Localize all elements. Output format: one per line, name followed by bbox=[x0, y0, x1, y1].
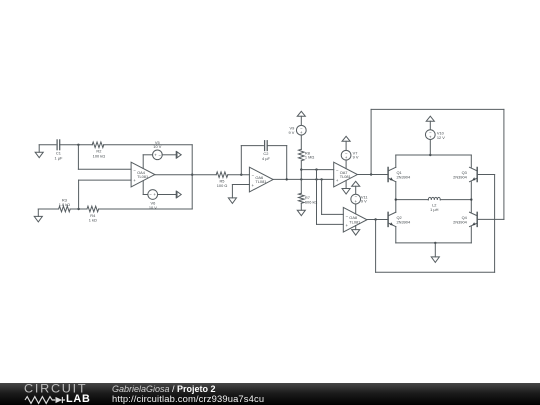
svg-text:100 kΩ: 100 kΩ bbox=[93, 153, 106, 158]
ground (bridge bottom) bbox=[431, 257, 439, 263]
node (OA6 inverting input) bbox=[240, 174, 242, 176]
node bbox=[300, 178, 302, 180]
node bbox=[286, 178, 288, 180]
svg-text:100 Ω: 100 Ω bbox=[217, 183, 228, 188]
wire (bridge top rail) bbox=[396, 154, 472, 156]
resistor R2 100 kOhm bbox=[92, 142, 105, 158]
wire (Q2 collector) bbox=[395, 200, 397, 213]
node (stage1 output) bbox=[191, 174, 193, 176]
wire (OA7 V+ stub) bbox=[345, 160, 347, 169]
svg-text:1 µH: 1 µH bbox=[430, 207, 438, 212]
wire bbox=[99, 208, 193, 210]
op-amp OA4 TL081 bbox=[131, 162, 155, 187]
wire bbox=[300, 161, 302, 194]
svg-text:1 kΩ: 1 kΩ bbox=[89, 218, 97, 223]
node bbox=[434, 242, 436, 244]
svg-text:10 V: 10 V bbox=[149, 205, 157, 210]
svg-text:TL081: TL081 bbox=[137, 174, 148, 179]
voltage source V9 9 V bbox=[288, 125, 306, 135]
voltage source V11 9 V bbox=[351, 194, 368, 204]
transistor Q3 2N3904 bbox=[453, 167, 477, 181]
svg-text:+: + bbox=[336, 178, 339, 183]
svg-text:TL081: TL081 bbox=[255, 179, 266, 184]
resistor R4 1 kOhm bbox=[87, 206, 99, 222]
wire (bottom cross loop) bbox=[376, 175, 495, 273]
wire bbox=[70, 208, 87, 210]
svg-text:+: + bbox=[252, 183, 255, 188]
node bbox=[320, 178, 322, 180]
svg-text:−: − bbox=[345, 213, 348, 218]
wire (to OA8 +) bbox=[317, 170, 344, 225]
wire (Q3 emitter) bbox=[470, 182, 472, 200]
wire (to OA8 -) bbox=[322, 179, 344, 214]
wire (stage1 feedback vertical) bbox=[191, 145, 193, 209]
ground (above V11) bbox=[352, 181, 360, 194]
svg-text:9 V: 9 V bbox=[353, 155, 359, 160]
wire bbox=[104, 144, 193, 146]
voltage source V5 10 V bbox=[153, 140, 163, 160]
wire (bridge mid rail right) bbox=[440, 199, 471, 201]
ground (V5) bbox=[176, 151, 181, 158]
ground (below OA8) bbox=[352, 230, 360, 236]
op-amp OA7 TL081 bbox=[334, 162, 358, 187]
wire (OA4 V- stub) bbox=[143, 181, 148, 195]
svg-text:2N3904: 2N3904 bbox=[397, 219, 411, 224]
resistor R8 1 MOhm bbox=[299, 149, 315, 161]
CircuitLab logo bbox=[24, 384, 94, 394]
wire (C2 feedback left) bbox=[241, 146, 263, 175]
wire (Q1 collector) bbox=[395, 155, 397, 167]
svg-text:9 V: 9 V bbox=[361, 199, 367, 204]
voltage source V7 9 V bbox=[341, 150, 359, 160]
ground (below R7) bbox=[297, 210, 305, 216]
node (C1/R2 junction) bbox=[77, 144, 79, 146]
wire bbox=[38, 208, 58, 210]
wire bbox=[228, 174, 250, 176]
svg-text:2N3904: 2N3904 bbox=[453, 174, 467, 179]
node (divider node) bbox=[300, 168, 302, 170]
resistor R7 606 kOhm bbox=[299, 193, 318, 204]
svg-text:−: − bbox=[133, 168, 136, 173]
capacitor C1 1 uF bbox=[54, 140, 62, 160]
wire (OA4 V+ stub) bbox=[143, 155, 153, 169]
ground (below OA7) bbox=[342, 189, 350, 195]
svg-text:4 µF: 4 µF bbox=[262, 156, 270, 161]
wire (OA7 out to Q1 base) bbox=[357, 174, 388, 176]
op-amp OA6 TL081 bbox=[249, 167, 273, 192]
svg-text:−: − bbox=[252, 173, 255, 178]
svg-text:10 V: 10 V bbox=[153, 144, 161, 149]
node (R3/R4 junction) bbox=[77, 208, 79, 210]
transistor Q1 2N3904 bbox=[388, 167, 411, 181]
wire (OA8 out to Q2 base) bbox=[367, 219, 388, 221]
svg-text:9 V: 9 V bbox=[288, 130, 294, 135]
wire bbox=[39, 144, 56, 146]
svg-text:+: + bbox=[133, 178, 136, 183]
svg-text:1.8 kΩ: 1.8 kΩ bbox=[59, 202, 70, 207]
ground (above V9) bbox=[297, 111, 305, 125]
wire (OA8 V- stub) bbox=[355, 226, 357, 230]
node bbox=[315, 168, 317, 170]
wire bbox=[300, 135, 302, 149]
node bbox=[395, 198, 397, 200]
wire (OA8 V+ stub) bbox=[355, 204, 357, 214]
ground (V6) bbox=[176, 191, 181, 198]
wire (bridge mid rail left) bbox=[396, 199, 429, 201]
ground (stage 1 bottom-left) bbox=[34, 209, 42, 222]
wire (node A to OA7 -) bbox=[301, 169, 333, 171]
node bbox=[470, 198, 472, 200]
svg-text:1 µF: 1 µF bbox=[54, 155, 62, 160]
svg-text:−: − bbox=[336, 168, 339, 173]
wire (OA6 output row) bbox=[273, 178, 334, 180]
svg-text:2N3904: 2N3904 bbox=[453, 219, 467, 224]
wire (OA6 + to ground) bbox=[232, 185, 249, 198]
wire (top cross loop) bbox=[371, 109, 504, 219]
wire bbox=[155, 174, 216, 176]
svg-text:TL081: TL081 bbox=[349, 219, 360, 224]
wire bbox=[434, 243, 436, 257]
node bbox=[315, 178, 317, 180]
node bbox=[374, 218, 376, 220]
wire (bridge bottom rail) bbox=[396, 242, 472, 244]
wire (Q4 emitter) bbox=[470, 227, 472, 243]
svg-text:12 V: 12 V bbox=[437, 135, 445, 140]
svg-text:TL081: TL081 bbox=[340, 174, 351, 179]
svg-text:2N3904: 2N3904 bbox=[397, 174, 411, 179]
svg-text:1 MΩ: 1 MΩ bbox=[305, 155, 314, 160]
wire bbox=[79, 180, 132, 209]
wire (Q3 collector) bbox=[470, 155, 472, 167]
ground (above V7) bbox=[342, 136, 350, 150]
inductor L2 1 uH bbox=[428, 197, 440, 211]
ground (input, stage 1 top-left) bbox=[35, 145, 43, 158]
capacitor C2 4 uF bbox=[262, 141, 270, 161]
wire bbox=[429, 139, 431, 155]
resistor R5 100 Ohm bbox=[216, 172, 228, 188]
op-amp OA8 TL081 bbox=[343, 207, 367, 232]
resistor R3 1.8 kOhm bbox=[59, 198, 71, 212]
wire bbox=[162, 154, 176, 156]
wire (C2 feedback right) bbox=[267, 146, 287, 180]
svg-text:606 kΩ: 606 kΩ bbox=[305, 199, 318, 204]
voltage source V6 10 V bbox=[148, 190, 158, 210]
transistor Q2 2N3904 bbox=[388, 212, 411, 226]
ground (above V10) bbox=[426, 116, 434, 130]
node bbox=[370, 173, 372, 175]
wire (Q2 emitter) bbox=[395, 227, 397, 243]
wire bbox=[300, 203, 302, 210]
wire (Q1 emitter) bbox=[395, 182, 397, 200]
wire (OA7 V- stub) bbox=[345, 181, 347, 189]
wire bbox=[78, 145, 131, 170]
wire bbox=[60, 144, 93, 146]
transistor Q4 2N3904 bbox=[453, 212, 477, 226]
svg-text:+: + bbox=[345, 223, 348, 228]
wire (Q4 collector) bbox=[470, 200, 472, 213]
voltage source V10 12 V bbox=[425, 130, 445, 140]
node bbox=[429, 154, 431, 156]
wire bbox=[158, 194, 177, 196]
ground (OA6 +) bbox=[228, 198, 236, 204]
